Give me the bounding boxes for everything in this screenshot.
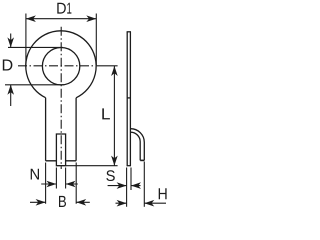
- label N: [31, 169, 39, 180]
- tab left edge: [45, 98, 47, 161]
- L extension bottom: [66, 165, 118, 167]
- hook bottom cap: [140, 159, 144, 161]
- B extension lines: [46, 163, 77, 204]
- label H: [159, 188, 167, 199]
- hole: [42, 47, 79, 84]
- D leader bottom: [5, 84, 65, 86]
- N arrow shafts: [41, 183, 78, 185]
- D bottom arrow shaft: [10, 85, 12, 106]
- D arrowheads: [7, 37, 14, 47]
- D top arrow shaft: [10, 34, 12, 48]
- D1 arrowheads: [26, 15, 36, 22]
- pin: [56, 134, 65, 166]
- S extension lines: [127, 168, 131, 207]
- label B: [59, 196, 66, 207]
- B arrowheads: [36, 199, 46, 206]
- S arrowheads: [117, 182, 127, 189]
- D leader top: [8, 46, 63, 48]
- H arrowheads: [117, 200, 127, 207]
- S arrow shafts: [108, 185, 141, 187]
- label D1: [57, 3, 71, 14]
- side view strip right edge: [129, 32, 131, 166]
- horizontal centerline: [18, 65, 97, 67]
- strip junction tick: [127, 97, 130, 99]
- strip bottom cap: [127, 165, 131, 167]
- B arrow shafts: [30, 201, 90, 203]
- label S: [106, 170, 115, 181]
- label L: [102, 108, 110, 119]
- L arrowheads: [111, 66, 118, 76]
- L dimension line: [113, 66, 115, 166]
- vertical centerline: [60, 27, 62, 169]
- strip top cap: [127, 31, 131, 33]
- N extension lines: [56, 168, 65, 189]
- hook inner edge: [131, 132, 141, 160]
- label D: [3, 60, 13, 71]
- D1 extension lines: [26, 14, 96, 67]
- H arrow shafts: [116, 202, 167, 204]
- tab bottom edge: [46, 160, 77, 162]
- H extension line: [143, 162, 145, 207]
- D1 dimension line: [26, 18, 96, 20]
- hook outer edge: [131, 129, 145, 161]
- tab right edge: [75, 98, 77, 161]
- N arrowheads: [46, 181, 56, 188]
- L extension top: [97, 65, 118, 67]
- side view strip left edge: [126, 32, 128, 166]
- ring outer outline: [26, 31, 96, 98]
